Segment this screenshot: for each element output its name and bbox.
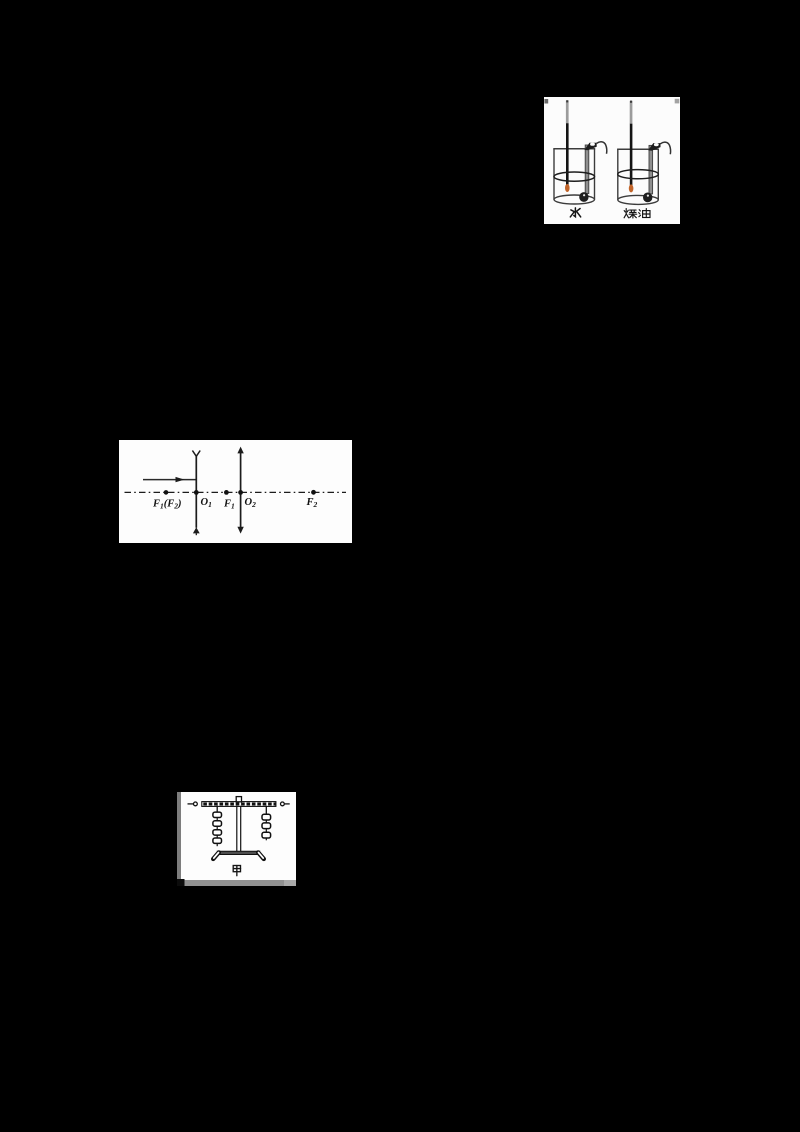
beaker of kerosene with thermometer and heater xyxy=(617,101,670,205)
incident ray with arrow xyxy=(143,477,196,482)
left weights (4) xyxy=(213,812,222,846)
node F2 dot xyxy=(311,490,316,495)
left end adjusting nut xyxy=(188,802,198,806)
stand column xyxy=(237,806,241,852)
stand base xyxy=(213,851,264,859)
figure 2: two-lens optical axis diagram xyxy=(119,440,352,543)
svg-text:F1(F2): F1(F2) xyxy=(152,499,182,511)
optical axis (dash-dot) xyxy=(125,491,347,493)
beaker of water with thermometer and heater xyxy=(553,100,606,204)
node F1(F2) dot xyxy=(164,490,169,495)
convex lens L2 xyxy=(237,447,243,534)
label 煤 (vector glyph) xyxy=(624,209,637,218)
label 水 (vector glyph) xyxy=(570,208,580,217)
lever beam with scale divisions xyxy=(202,802,276,807)
figure 1: two beakers (water / kerosene) experiment xyxy=(544,97,680,224)
pivot block xyxy=(236,797,241,802)
label 油 (vector glyph) xyxy=(639,209,650,218)
node O1 dot xyxy=(194,490,199,495)
kerosene surface ellipse xyxy=(618,170,659,179)
right hook xyxy=(265,806,267,815)
node F1 dot xyxy=(224,490,229,495)
black square bottom-left xyxy=(177,879,185,886)
figure 3: lever balance with hanging weights, labelled 甲 xyxy=(177,792,296,886)
gray bar bottom xyxy=(181,880,296,886)
right end adjusting nut xyxy=(281,802,290,806)
label 甲 (vector glyph) xyxy=(233,866,240,876)
water surface ellipse xyxy=(554,172,595,181)
gray strip left xyxy=(177,792,181,886)
concave lens L1 xyxy=(192,451,200,536)
node O2 dot xyxy=(238,490,243,495)
gray corner marks xyxy=(544,99,548,104)
right weights (3) xyxy=(262,814,271,840)
left hook xyxy=(216,806,218,813)
